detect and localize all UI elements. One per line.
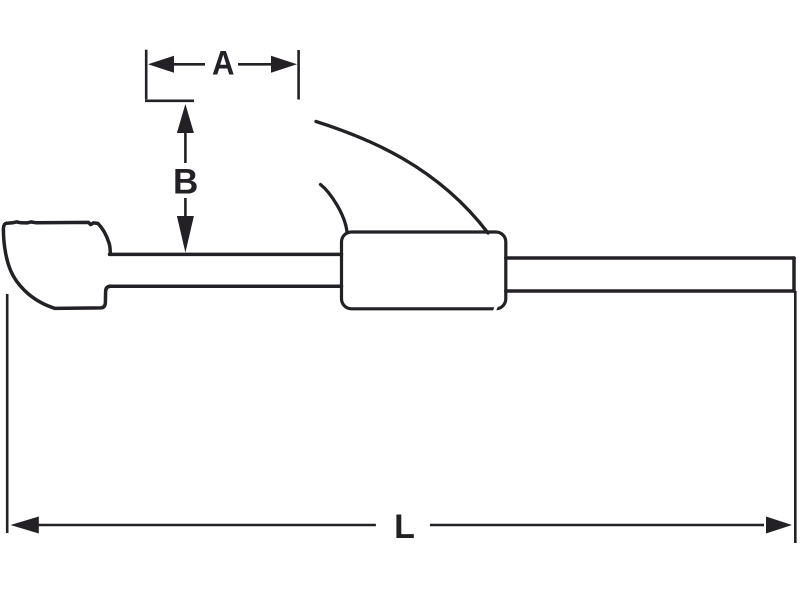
svg-text:A: A: [212, 45, 235, 83]
svg-text:B: B: [173, 163, 198, 202]
svg-text:L: L: [394, 508, 415, 546]
